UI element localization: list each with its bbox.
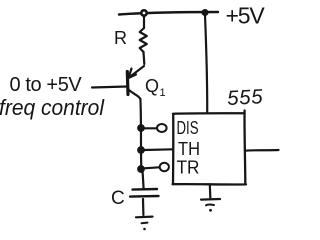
wire 555 output bbox=[246, 149, 279, 152]
svg-text:R: R bbox=[114, 28, 127, 48]
wire resistor top lead bbox=[143, 16, 145, 28]
node junction TR bbox=[138, 166, 145, 173]
transistor Q1 emitter arrowhead bbox=[129, 69, 137, 79]
wire collector to cap (vertical) bbox=[140, 99, 141, 172]
transistor Q1 base bar bbox=[126, 72, 130, 95]
pin bubble DIS bbox=[157, 124, 167, 132]
ground 555 stem bbox=[209, 185, 212, 200]
wire cap bottom stem bbox=[142, 199, 145, 215]
wire to TH pin bbox=[144, 148, 173, 151]
transistor Q1 emitter bbox=[129, 66, 144, 78]
node junction TH bbox=[138, 147, 145, 154]
svg-text:0 to +5V: 0 to +5V bbox=[10, 74, 83, 96]
wire base input bbox=[92, 87, 127, 88]
IC 555 box bbox=[173, 111, 246, 185]
wire to DIS pin bbox=[144, 127, 157, 129]
ground cap bar1 bbox=[136, 216, 153, 219]
resistor R bbox=[140, 28, 147, 52]
svg-text:TR: TR bbox=[177, 157, 200, 178]
pin bubble TR bbox=[160, 163, 169, 171]
ground 555 dot bbox=[209, 209, 212, 212]
ground cap bar2 bbox=[142, 222, 148, 225]
wire Vcc feed to 555 bbox=[205, 15, 207, 113]
capacitor C top plate bbox=[133, 188, 158, 191]
wire resistor bottom lead bbox=[142, 52, 145, 64]
svg-text:555: 555 bbox=[227, 85, 264, 110]
wire cap top lead bbox=[143, 172, 144, 189]
wire to TR pin bbox=[144, 167, 160, 168]
svg-text:+5V: +5V bbox=[226, 3, 266, 29]
ground cap dot bbox=[143, 228, 146, 231]
svg-text:DIS: DIS bbox=[177, 117, 199, 138]
capacitor C bottom plate bbox=[130, 195, 159, 198]
wire +5V top rail bbox=[119, 12, 218, 15]
svg-text:1: 1 bbox=[160, 87, 166, 99]
svg-text:C: C bbox=[111, 188, 125, 209]
ground 555 bar2 bbox=[206, 203, 214, 206]
node junction B (555 Vcc tap) bbox=[202, 10, 208, 16]
svg-text:freq control: freq control bbox=[0, 95, 105, 120]
transistor Q1 collector bbox=[129, 90, 141, 100]
ground 555 bar1 bbox=[201, 198, 220, 201]
node junction A (resistor tap) bbox=[141, 10, 146, 15]
node junction DIS bbox=[138, 125, 145, 132]
svg-text:Q: Q bbox=[145, 76, 159, 96]
